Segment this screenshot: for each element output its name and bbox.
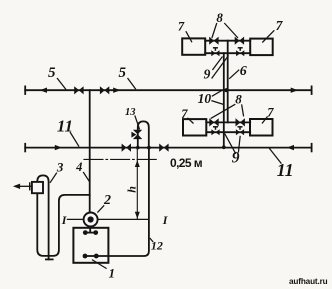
lower radiator bottom connection pipe <box>206 131 250 133</box>
control valve 9 upper-right <box>236 48 244 56</box>
leader for label 9 lower to right valve <box>238 136 240 153</box>
flow arrow left on supply main left <box>40 88 47 93</box>
overflow arrow left at expansion tank <box>13 184 20 189</box>
svg-text:8: 8 <box>235 92 242 107</box>
dimension h top arrowhead <box>135 160 140 167</box>
supply main pipe 5 <box>25 89 311 91</box>
overflow line tick <box>29 183 31 190</box>
svg-text:10: 10 <box>198 91 212 106</box>
boiler top header node right <box>93 230 98 235</box>
radiator 7 upper left <box>182 38 205 54</box>
boiler bottom header node right <box>94 254 99 259</box>
leader for label 2 <box>97 205 104 212</box>
dimension line h <box>136 148 138 218</box>
pump 2 hub <box>88 216 94 222</box>
leader for label 7 upper-right <box>262 30 274 42</box>
expansion tank box 3 <box>32 182 43 193</box>
svg-text:7: 7 <box>276 18 284 33</box>
svg-text:11: 11 <box>57 116 73 135</box>
svg-text:5: 5 <box>119 65 127 81</box>
upper radiator top connection pipe <box>205 40 250 42</box>
svg-text:7: 7 <box>178 20 185 34</box>
svg-text:9: 9 <box>232 150 240 167</box>
radiator valve 8 lower-left <box>209 118 218 126</box>
leader for label 7 lower-right <box>262 116 268 123</box>
junction node valve13 branch <box>136 146 140 150</box>
branch pipe with valve 13 over return main <box>138 121 149 147</box>
expansion tank piping loop 3 <box>37 175 89 259</box>
leader for label 9 upper (first) <box>212 57 222 71</box>
leader for label 9 upper (second) <box>212 56 229 79</box>
leader for label 3 <box>50 173 57 183</box>
leader for label 11 right <box>269 148 281 164</box>
leader for label 6 <box>229 70 239 79</box>
boiler 1 body <box>73 228 108 263</box>
riser return-side pipe <box>223 53 225 147</box>
svg-text:I: I <box>61 213 68 227</box>
leader for label 12 <box>150 238 153 242</box>
svg-text:5: 5 <box>48 65 56 81</box>
svg-text:2: 2 <box>103 193 111 208</box>
return main right end tick <box>311 144 313 152</box>
gate valve on supply main left <box>74 86 83 94</box>
leader for label 10 to supply junction <box>212 90 223 96</box>
riser pipe 6 (right branch, supply side) <box>227 41 229 123</box>
upper radiator bottom connection pipe <box>205 52 250 54</box>
radiator valve 8 upper-left <box>209 37 218 45</box>
flow arrow left on return main right <box>287 145 294 150</box>
svg-text:4: 4 <box>75 160 82 174</box>
svg-text:7: 7 <box>181 107 188 121</box>
svg-text:3: 3 <box>56 159 64 174</box>
leader for label 5 second <box>128 78 136 89</box>
svg-text:12: 12 <box>151 239 163 253</box>
lower radiator top connection pipe <box>206 121 250 123</box>
leader for label 7 upper-left <box>186 31 192 42</box>
svg-text:I: I <box>162 213 169 227</box>
gate valve on return main right of branch <box>159 144 168 152</box>
flow arrow right on return main left <box>55 145 62 150</box>
leader for label 9 lower to left valve <box>225 133 236 153</box>
boiler return pipe 12 <box>96 148 149 256</box>
flow arrow right after valves on supply main <box>113 88 120 93</box>
boiler top header node left <box>83 230 88 235</box>
overflow signal line from tank <box>20 185 32 187</box>
leader for label 13 <box>135 115 140 129</box>
control valve 9 lower-right <box>236 127 244 135</box>
radiator valve 8 lower-right <box>236 118 245 126</box>
section line I-I through pump <box>67 218 148 220</box>
boiler top header line <box>85 232 95 234</box>
junction node boiler return pipe <box>147 146 151 150</box>
supply main right end tick <box>311 86 313 94</box>
leader for label 4 <box>83 172 89 182</box>
leader for label 1 <box>92 260 107 269</box>
leader for label 7 lower-left <box>188 118 194 124</box>
pump 2 circle <box>84 213 98 227</box>
main riser stem 4 (boiler to supply main) <box>89 90 91 212</box>
leader for label 10 to riser below <box>211 101 223 105</box>
leader for label 11 left <box>70 132 79 147</box>
return main left end tick <box>24 144 26 152</box>
leader for label 8 lower to right valve <box>242 104 244 116</box>
control valve 9 lower-left <box>211 127 219 135</box>
leader for label 8 lower to left valve <box>211 104 236 118</box>
return main pipe 11 <box>25 147 311 149</box>
gate valve on supply main second <box>100 86 109 94</box>
svg-text:9: 9 <box>204 67 211 82</box>
svg-text:13: 13 <box>125 107 136 118</box>
junction node riser-supply main <box>224 88 228 92</box>
svg-text:h: h <box>124 186 138 193</box>
boiler bottom header line <box>85 255 96 257</box>
svg-text:11: 11 <box>277 160 294 180</box>
datum dash-dot line at 0.25m level <box>84 158 156 160</box>
svg-text:7: 7 <box>267 106 274 120</box>
radiator 7 upper right <box>250 39 273 56</box>
gate valve on return main left of branch <box>122 144 131 152</box>
radiator 7 lower left <box>183 119 206 135</box>
svg-text:6: 6 <box>240 64 247 79</box>
pump connection stem to boiler <box>89 226 91 232</box>
boiler bottom header node left <box>83 254 88 259</box>
radiator 7 lower right <box>250 119 273 136</box>
leader for label 5 left <box>57 78 66 90</box>
svg-text:1: 1 <box>109 265 116 280</box>
control valve 9 upper-left <box>211 48 219 56</box>
svg-text:8: 8 <box>216 10 223 25</box>
leader for label 8 top to left valve <box>212 23 217 38</box>
dimension h bottom arrowhead <box>135 212 140 219</box>
flow arrow right on supply main right <box>291 88 298 93</box>
radiator valve 8 upper-right <box>235 37 244 45</box>
leader for label 8 top to right valve <box>224 23 238 38</box>
svg-text:aufhaut.ru: aufhaut.ru <box>289 277 328 286</box>
valve 13 symbol <box>131 130 142 139</box>
junction node riser-return main <box>222 145 226 149</box>
open end tee of expansion pipe <box>46 258 53 260</box>
supply main left end tick <box>24 86 26 94</box>
svg-text:0,25 м: 0,25 м <box>170 156 203 170</box>
